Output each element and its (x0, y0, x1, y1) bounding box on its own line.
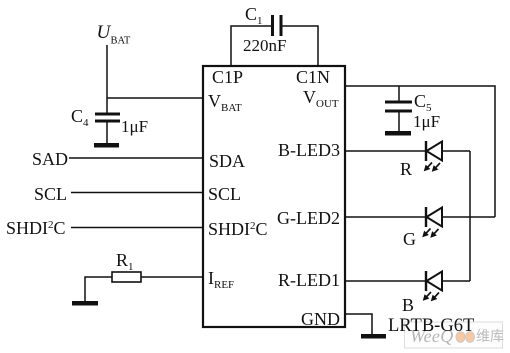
wire GND pin to ground (345, 314, 372, 334)
pin VOUT label (303, 87, 339, 110)
wire ground to R1 (85, 277, 112, 301)
svg-text:1μF: 1μF (413, 112, 440, 131)
svg-text:GND: GND (301, 309, 340, 329)
pin SHDI2C label (208, 219, 268, 239)
LED B (blue) (426, 271, 442, 291)
wire SHDI2C to pin (71, 227, 203, 229)
wire SCL to SCL pin (71, 192, 203, 194)
svg-text:LRTB-G6T: LRTB-G6T (388, 316, 474, 336)
wire UBAT vertical (106, 45, 108, 113)
svg-text:SAD: SAD (32, 149, 68, 169)
svg-text:R-LED1: R-LED1 (278, 270, 340, 290)
svg-text:B-LED3: B-LED3 (278, 140, 340, 160)
svg-text:SCL: SCL (208, 184, 241, 204)
svg-text:BAT: BAT (111, 36, 131, 47)
node R label (400, 159, 412, 179)
svg-text:SCL: SCL (34, 184, 67, 204)
pin SCL label (208, 184, 241, 204)
LED part number LRTB-G6T (388, 316, 474, 336)
LED R (red) (426, 141, 442, 161)
svg-text:C1P: C1P (212, 67, 243, 87)
LED G emission arrows (423, 229, 439, 238)
svg-text:220nF: 220nF (243, 36, 286, 55)
svg-text:U: U (97, 22, 112, 43)
capacitor C4 label (71, 106, 89, 129)
svg-text:SHDI2C: SHDI2C (6, 218, 66, 238)
svg-text:SDA: SDA (209, 151, 245, 171)
op-amp U1 driver IC body (203, 66, 345, 327)
ground below C4 (94, 143, 119, 148)
pin IREF label (208, 268, 234, 291)
LED G (green) (426, 207, 442, 227)
wire C1P leg (231, 26, 272, 66)
wire G-LED2 row (345, 216, 495, 218)
ground below R1 (72, 301, 98, 306)
node SHDI2C label (6, 218, 66, 238)
pin G-LED2 label (277, 208, 340, 228)
svg-text:B: B (402, 295, 414, 315)
capacitor C5 value 1uF (413, 112, 440, 131)
pin VBAT label (208, 91, 242, 114)
capacitor C1 value 220nF (243, 36, 286, 55)
node UBAT label (97, 22, 131, 47)
wire B-LED3 row (345, 150, 470, 152)
ground below GND pin (361, 334, 386, 339)
node G label (403, 229, 416, 249)
svg-text:SHDI2C: SHDI2C (208, 219, 268, 239)
capacitor C5 (385, 101, 412, 132)
LED R emission arrows (425, 163, 441, 172)
capacitor C4 (95, 113, 120, 144)
resistor R1 (112, 272, 141, 282)
node B label (402, 295, 414, 315)
pin C1N label (296, 67, 330, 87)
pin C1P label (212, 67, 243, 87)
wire VOUT rail (345, 86, 495, 217)
svg-text:C1N: C1N (296, 67, 330, 87)
capacitor C5 label (414, 91, 432, 114)
svg-text:G-LED2: G-LED2 (277, 208, 340, 228)
pin SDA label (209, 151, 245, 171)
node SCL label (34, 184, 67, 204)
wire R1 to IREF pin (141, 276, 203, 278)
resistor R1 label (116, 250, 134, 273)
ground below C5 (385, 131, 411, 136)
wire C1N leg (283, 26, 319, 66)
node SAD label (32, 149, 68, 169)
watermark box (405, 322, 505, 348)
pin R-LED1 label (278, 270, 340, 290)
wire R-LED1 row (345, 280, 470, 282)
wire SAD to SDA pin (69, 157, 203, 159)
svg-text:维库: 维库 (476, 329, 504, 345)
svg-text:G: G (403, 229, 416, 249)
capacitor C1 label (245, 4, 263, 27)
LED B emission arrows (424, 292, 440, 301)
pin GND label (301, 309, 340, 329)
svg-text:R: R (400, 159, 412, 179)
wire C5 top leg (398, 86, 400, 101)
svg-text:1μF: 1μF (121, 117, 148, 136)
wire UBAT to VBAT pin (107, 97, 203, 99)
wire LED bus vertical (469, 151, 471, 281)
pin B-LED3 label (278, 140, 340, 160)
capacitor C1 (271, 15, 283, 36)
capacitor C4 value 1uF (121, 117, 148, 136)
